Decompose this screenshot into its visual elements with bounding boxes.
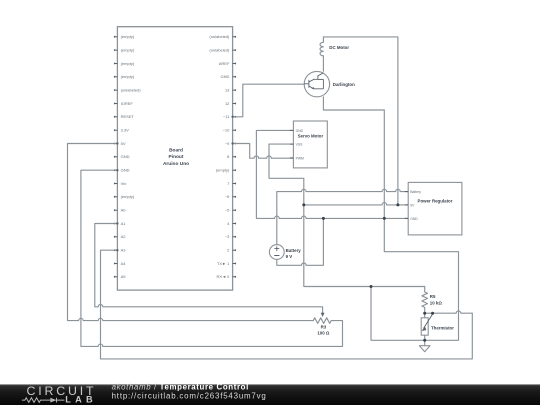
thermistor RT1: [421, 313, 454, 340]
svg-text:A5: A5: [121, 274, 127, 279]
svg-text:Aruino Uno: Aruino Uno: [163, 161, 189, 167]
wire pin ~11 to Darlington base: [233, 84, 305, 117]
svg-text:~10: ~10: [223, 128, 231, 133]
svg-text:(empty): (empty): [216, 168, 230, 173]
svg-text:GND: GND: [121, 154, 130, 159]
footer title text: [112, 383, 267, 401]
svg-text:GND: GND: [121, 168, 130, 173]
svg-text:GND: GND: [296, 129, 304, 133]
wire GND pin to potentiometer R3 right terminal: [81, 170, 343, 346]
svg-text:A4: A4: [121, 261, 127, 266]
svg-text:10 kΩ: 10 kΩ: [430, 300, 443, 305]
svg-text:(unlabeled): (unlabeled): [209, 34, 230, 39]
svg-text:Pinout: Pinout: [169, 154, 184, 160]
svg-text:3.3V: 3.3V: [121, 128, 130, 133]
svg-text:(empty): (empty): [121, 34, 135, 39]
wire battery plus to regulator Battery pin: [277, 189, 408, 244]
svg-text:VSS: VSS: [296, 143, 304, 147]
svg-text:R3: R3: [321, 324, 327, 329]
svg-text:13: 13: [225, 87, 230, 92]
svg-text:GND: GND: [221, 74, 230, 79]
svg-text:Power Regulator: Power Regulator: [418, 198, 453, 203]
wire pin ~9 to servo PWM: [233, 144, 294, 159]
board left pin labels: [121, 34, 142, 279]
svg-text:(unlabeled): (unlabeled): [121, 87, 142, 92]
svg-text:(unlabeled): (unlabeled): [209, 47, 230, 52]
wire 5V pin to potentiometer R3 left terminal: [68, 144, 314, 321]
svg-text:Battery: Battery: [410, 190, 421, 194]
svg-text:5V: 5V: [410, 203, 415, 207]
potentiometer R3 100 Ohm: [313, 313, 331, 336]
wire ground stem below thermistor: [424, 340, 426, 345]
svg-text:(empty): (empty): [121, 61, 135, 66]
svg-text:(empty): (empty): [121, 47, 135, 52]
svg-text:akothamb / Temperature Control: akothamb / Temperature Control: [112, 383, 249, 392]
svg-text:R5: R5: [430, 294, 436, 299]
svg-text:~3: ~3: [225, 234, 230, 239]
board U1 Arduino Uno outline: [117, 27, 232, 290]
svg-text:Battery: Battery: [286, 248, 302, 253]
svg-text:~5: ~5: [225, 208, 230, 213]
svg-text:~9: ~9: [225, 141, 230, 146]
board left pin stubs: [114, 36, 118, 278]
DC motor M1 coil symbol: [320, 37, 349, 71]
ground symbol: [419, 346, 430, 352]
svg-text:GND: GND: [410, 217, 418, 221]
Darlington transistor Q1: [304, 71, 355, 96]
svg-text:A2: A2: [121, 234, 127, 239]
svg-text:A1: A1: [121, 221, 127, 226]
svg-text:RESET: RESET: [121, 114, 135, 119]
svg-text:AREF: AREF: [219, 61, 230, 66]
svg-text:(empty): (empty): [121, 74, 135, 79]
svg-text:Vin: Vin: [121, 181, 127, 186]
wire DC motor top to regulator 5V node: [323, 37, 398, 205]
wire A3 pin to thermistor top node: [101, 250, 473, 359]
wire 5V rail to regulator 5V pin: [304, 203, 408, 205]
svg-text:12: 12: [225, 101, 230, 106]
CircuitLab logo: [22, 384, 97, 405]
svg-text:Thermistor: Thermistor: [431, 325, 454, 330]
wire battery minus to ground row: [277, 218, 324, 265]
resistor R5 10 kOhm: [422, 287, 442, 314]
svg-text:DC Motor: DC Motor: [329, 45, 349, 50]
svg-text:Servo Motor: Servo Motor: [298, 133, 324, 138]
svg-text:IOREF: IOREF: [121, 101, 134, 106]
svg-text:Darlington: Darlington: [333, 82, 355, 87]
wire A1 pin to potentiometer R3 wiper: [95, 224, 323, 313]
svg-text:A0: A0: [121, 208, 127, 213]
junction node dots: [302, 203, 434, 341]
wire Darlington emitter to regulator GND and thermistor bottom: [323, 97, 458, 340]
svg-text:RX◄ 0: RX◄ 0: [217, 274, 231, 279]
wire servo VSS to 5V rail and R5 top: [269, 144, 425, 286]
board pin connection dots: [116, 116, 234, 252]
svg-text:100 Ω: 100 Ω: [317, 331, 330, 336]
wire servo GND to regulator GND (ground row): [256, 130, 408, 218]
svg-text:~11: ~11: [223, 114, 230, 119]
board right pin labels: [209, 34, 230, 279]
board right pin stubs: [233, 36, 237, 278]
board title Board Pinout Aruino Uno: [163, 148, 189, 167]
svg-text:A3: A3: [121, 248, 127, 253]
svg-text:TX► 1: TX► 1: [217, 261, 230, 266]
battery V1 9V source: [269, 245, 301, 260]
svg-text:(empty): (empty): [121, 194, 135, 199]
power regulator box: [405, 182, 462, 235]
svg-text:PWM: PWM: [296, 156, 304, 160]
svg-text:LAB: LAB: [65, 395, 97, 405]
svg-text:http://circuitlab.com/c263f543: http://circuitlab.com/c263f543um7vg: [112, 392, 267, 401]
svg-text:Board: Board: [169, 148, 183, 154]
servo motor box: [290, 121, 327, 168]
svg-text:9 V: 9 V: [286, 254, 293, 259]
svg-text:5V: 5V: [121, 141, 126, 146]
svg-text:~6: ~6: [225, 194, 230, 199]
